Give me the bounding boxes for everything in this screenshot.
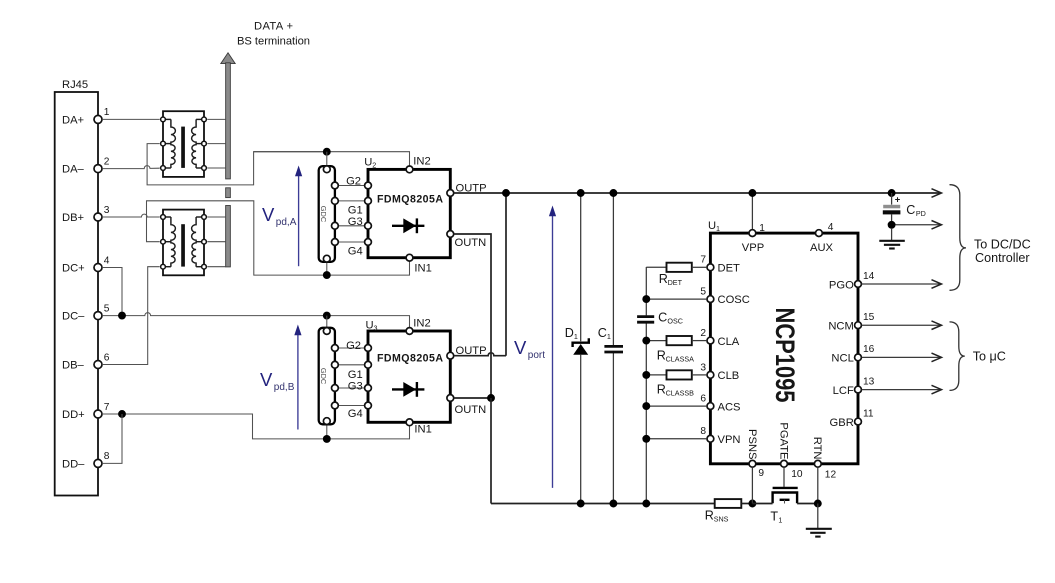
svg-text:OUTN: OUTN	[455, 237, 487, 249]
svg-text:PGATE: PGATE	[777, 422, 789, 459]
wire pin1 to TR1 top	[102, 118, 160, 120]
svg-text:IN1: IN1	[414, 263, 431, 275]
svg-text:DA+: DA+	[62, 114, 84, 126]
svg-text:To DC/DC: To DC/DC	[974, 237, 1031, 251]
U1 pin 16 NCL	[855, 354, 862, 361]
wire TR2 secondary mid to BS bus	[207, 241, 225, 243]
svg-text:V: V	[514, 337, 527, 358]
svg-text:U: U	[364, 157, 372, 169]
svg-text:9: 9	[758, 468, 764, 479]
GDC bottom terminal U3	[323, 418, 330, 425]
svg-text:11: 11	[863, 408, 874, 419]
junction ACS	[642, 402, 650, 410]
wire OUTN to bottom bus	[490, 398, 492, 504]
brace To uC	[950, 322, 965, 391]
svg-text:G4: G4	[348, 246, 363, 258]
junction CPD bottom	[888, 221, 896, 229]
svg-text:1: 1	[778, 515, 782, 524]
svg-text:G3: G3	[348, 380, 363, 392]
svg-text:FDMQ8205A: FDMQ8205A	[377, 194, 443, 206]
svg-text:PD: PD	[916, 209, 926, 218]
wire G3 U3	[335, 387, 368, 389]
wire node B top to U3 IN2	[327, 316, 410, 328]
transformer TR1 (data pair A)	[163, 111, 204, 177]
wire node A bottom to U2 IN1	[327, 262, 410, 276]
U1 pin 5 COSC	[707, 296, 714, 303]
svg-text:CLASSB: CLASSB	[666, 389, 695, 398]
U1 pin 2 CLA	[707, 337, 714, 344]
wire U3 OUTP to tie rail (hop over OUTN rail)	[454, 353, 506, 356]
svg-text:PSNS: PSNS	[746, 429, 758, 459]
U2 pin G3 left	[365, 222, 372, 229]
transformer TR2 (data pair B)	[163, 210, 204, 276]
U3 pin G4 left	[365, 402, 372, 409]
GDC top terminal U3	[323, 328, 330, 335]
BS termination bus arrow (gray)	[221, 53, 235, 64]
U1 pin 4 AUX	[816, 230, 823, 237]
svg-text:2: 2	[700, 328, 706, 339]
svg-text:RTN: RTN	[811, 437, 823, 460]
U1 pin 14 PGO	[855, 281, 862, 288]
U2 pin IN1	[406, 254, 413, 261]
svg-text:IN2: IN2	[413, 156, 430, 168]
junction COSC	[642, 295, 650, 303]
U1 pin 7 DET	[707, 264, 714, 271]
U2 pin G2 left	[365, 182, 372, 189]
svg-text:4: 4	[828, 222, 834, 233]
junction node bottom U2	[323, 271, 331, 279]
wire G1 U3	[335, 364, 368, 366]
bridge rectifier U3 FDMQ8205A body	[368, 331, 450, 422]
U3 pin IN1	[406, 419, 413, 426]
GDC bottom terminal U2	[323, 255, 330, 262]
svg-text:G1: G1	[348, 204, 363, 216]
bridge rectifier U2 FDMQ8205A body	[368, 169, 450, 257]
svg-text:G2: G2	[346, 176, 361, 188]
U1 pin 3 CLB	[707, 372, 714, 379]
wire TR1 secondary top to BS bus	[207, 118, 225, 120]
wire pin8 up to pin7 junction	[102, 414, 122, 463]
RJ45 pin 1 terminal	[94, 115, 102, 123]
U3 pin OUTP	[447, 352, 454, 359]
svg-text:GDC: GDC	[319, 206, 328, 223]
wire U2 OUTP tie down to U3 OUTP	[505, 193, 507, 356]
GDC pin 1 U3	[332, 345, 339, 352]
svg-text:CLB: CLB	[718, 370, 740, 382]
U1 pin 13 LCF	[855, 386, 862, 393]
svg-text:NCP1095: NCP1095	[770, 308, 800, 403]
wire TR2 secondary top to BS bus	[207, 216, 225, 218]
svg-text:AUX: AUX	[810, 242, 834, 254]
U3 pin G2 left	[365, 345, 372, 352]
wire RTN to ground	[817, 504, 819, 529]
wire pin6 to TR2 bottom	[102, 267, 160, 365]
svg-text:To μC: To μC	[973, 350, 1006, 364]
brace To DC/DC	[950, 185, 967, 291]
wire node A top to U2 IN2	[254, 152, 410, 166]
svg-text:OUTN: OUTN	[455, 404, 487, 416]
U1 pin 12 RTN	[814, 460, 821, 467]
junction node bottom U3	[323, 435, 331, 443]
junction pins 7-8	[118, 410, 126, 418]
U2 internal diode	[392, 225, 424, 227]
resistor RCLASSB	[646, 374, 666, 376]
svg-text:2: 2	[104, 156, 110, 167]
wire CPD to arrow	[896, 224, 941, 226]
svg-text:NCL: NCL	[831, 353, 853, 365]
junction D1 bottom	[577, 500, 585, 508]
svg-text:12: 12	[825, 469, 837, 480]
svg-text:1: 1	[104, 107, 110, 118]
svg-text:VPN: VPN	[718, 434, 741, 446]
resistor RSNS	[715, 499, 742, 508]
svg-text:8: 8	[700, 426, 706, 437]
svg-text:DD–: DD–	[62, 458, 85, 470]
junction C1 top	[609, 189, 617, 197]
GDC pin 3 U3	[332, 385, 339, 392]
svg-text:DC+: DC+	[62, 263, 85, 275]
svg-text:G4: G4	[348, 408, 363, 420]
wire TR1 center tap to node A top	[147, 144, 327, 185]
svg-text:PGO: PGO	[829, 279, 854, 291]
wire GDC bottom stub U2	[326, 259, 328, 275]
U1 pin 8 VPN	[707, 435, 714, 442]
svg-text:6: 6	[700, 394, 706, 405]
svg-text:DB–: DB–	[62, 360, 85, 372]
svg-text:U: U	[366, 319, 374, 331]
top bus OUTP rail	[454, 192, 941, 194]
zener diode D1	[573, 344, 588, 355]
wire NCL out	[862, 356, 941, 358]
wire TR2 secondary bottom to BS bus	[207, 266, 225, 268]
svg-text:10: 10	[791, 469, 803, 480]
svg-text:1: 1	[574, 332, 578, 341]
svg-text:7: 7	[104, 402, 110, 413]
svg-text:OSC: OSC	[667, 316, 683, 325]
svg-text:FDMQ8205A: FDMQ8205A	[377, 353, 443, 365]
wire G2 U2	[335, 185, 368, 187]
U2 pin IN2	[406, 166, 413, 173]
GDC gate-drive controller of U2	[319, 166, 335, 262]
U3 pin G3 left	[365, 385, 372, 392]
RJ45 pin 2 terminal	[94, 165, 102, 173]
capacitor C1	[604, 345, 623, 348]
U1 pin 9 PSNS	[749, 460, 756, 467]
capacitor COSC	[637, 315, 654, 318]
svg-text:SNS: SNS	[714, 514, 729, 523]
wire ACS pin	[646, 405, 707, 407]
junction pins 4-5	[118, 312, 126, 320]
GDC pin 3 U2	[332, 222, 339, 229]
wire C1 rail	[612, 193, 614, 345]
junction OUTP tie	[502, 189, 510, 197]
svg-text:1: 1	[607, 332, 611, 341]
junction RTN	[814, 500, 822, 508]
U3 pin IN2	[406, 328, 413, 335]
svg-text:5: 5	[700, 287, 706, 298]
svg-text:G3: G3	[348, 216, 363, 228]
wire G4 U2	[335, 241, 368, 243]
wire VPN pin	[646, 438, 707, 440]
wire COSC pin	[646, 298, 707, 300]
svg-text:13: 13	[863, 376, 875, 387]
wire D1 rail	[580, 193, 582, 341]
GDC top terminal U2	[323, 166, 330, 173]
svg-text:D: D	[565, 326, 574, 340]
wire LCF out	[862, 389, 941, 391]
svg-text:8: 8	[104, 451, 110, 462]
svg-text:BS termination: BS termination	[237, 36, 310, 48]
U1 pin 1 VPP	[749, 230, 756, 237]
svg-text:port: port	[528, 350, 545, 361]
svg-text:1: 1	[716, 224, 720, 233]
wire G3 U2	[335, 225, 368, 227]
svg-text:DET: DET	[668, 278, 683, 287]
svg-text:pd,A: pd,A	[276, 217, 297, 228]
junction left rail bottom bus	[642, 500, 650, 508]
svg-text:15: 15	[863, 312, 875, 323]
Vpd,A arrow	[298, 174, 300, 266]
junction VPP bus	[748, 189, 756, 197]
wire NCM out	[862, 324, 941, 326]
U1 pin 6 ACS	[707, 403, 714, 410]
svg-text:GBR: GBR	[830, 417, 854, 429]
svg-text:Controller: Controller	[975, 251, 1030, 265]
svg-text:COSC: COSC	[718, 294, 750, 306]
junction node top U3	[323, 312, 331, 320]
U3 internal diode	[392, 388, 424, 390]
wire pin4 down to pin5 junction	[102, 268, 122, 316]
GDC pin 2 U2	[332, 198, 339, 205]
IC U1 NCP1095 body	[710, 233, 858, 464]
junction RCLASSA	[642, 337, 650, 345]
U2 pin OUTN	[447, 231, 454, 238]
U3 pin OUTN	[447, 395, 454, 402]
GDC pin 4 U2	[332, 239, 339, 246]
svg-text:R: R	[659, 272, 668, 286]
svg-text:14: 14	[863, 271, 875, 282]
Vport arrow	[552, 215, 554, 488]
svg-text:3: 3	[374, 323, 378, 332]
svg-text:G1: G1	[348, 369, 363, 381]
svg-text:5: 5	[104, 303, 110, 314]
wire PSNS down	[751, 467, 753, 503]
svg-text:6: 6	[104, 352, 110, 363]
svg-text:U: U	[708, 220, 716, 232]
capacitor CPD (polarized)	[891, 193, 893, 205]
svg-text:2: 2	[372, 161, 376, 170]
GDC pin 1 U2	[332, 182, 339, 189]
svg-text:RJ45: RJ45	[62, 79, 88, 91]
svg-text:4: 4	[104, 255, 110, 266]
wire GDC top stub U2	[326, 152, 328, 169]
wire pin7 to node B bottom	[102, 414, 327, 439]
wire GDC top stub U3	[326, 316, 328, 331]
left rail (class/detect return)	[645, 267, 647, 315]
bottom bus left	[491, 503, 715, 505]
svg-text:CLASSA: CLASSA	[666, 354, 695, 363]
svg-text:NCM: NCM	[828, 321, 853, 333]
U1 pin 11 GBR	[855, 418, 862, 425]
wire CPD to ground	[891, 229, 893, 241]
wire TR1 secondary mid to BS bus	[207, 143, 225, 145]
GDC pin 2 U3	[332, 361, 339, 368]
wire TR2 center tap to node A bottom	[147, 201, 327, 275]
svg-text:3: 3	[700, 362, 706, 373]
wire node B bottom to U3 IN1	[327, 426, 410, 439]
junction CPD top	[888, 189, 896, 197]
transistor T1 (hot-swap MOSFET)	[773, 487, 798, 489]
U1 pin 15 NCM	[855, 322, 862, 329]
top bus arrow to DC/DC	[932, 189, 942, 198]
wire pin5/junction to node B top (hop over pin6 wire)	[102, 313, 327, 316]
svg-text:LCF: LCF	[833, 385, 854, 397]
svg-text:IN1: IN1	[414, 424, 431, 436]
wire G4 U3	[335, 405, 368, 407]
svg-text:R: R	[657, 383, 666, 397]
svg-text:16: 16	[863, 344, 875, 355]
junction C1 bottom	[609, 500, 617, 508]
U1 pin 10 PGATE	[781, 460, 788, 467]
ground (RTN)	[806, 528, 832, 530]
resistor RDET	[646, 266, 666, 268]
U2 pin OUTP	[447, 190, 454, 197]
svg-text:DATA +: DATA +	[254, 21, 293, 33]
svg-text:C: C	[906, 203, 915, 217]
svg-text:7: 7	[700, 255, 706, 266]
svg-text:DB+: DB+	[62, 212, 84, 224]
svg-text:GDC: GDC	[319, 368, 328, 385]
svg-text:V: V	[262, 204, 275, 225]
GDC gate-drive controller of U3	[319, 328, 335, 425]
svg-text:DD+: DD+	[62, 409, 85, 421]
wire TR1 secondary bottom to BS bus	[207, 167, 225, 169]
RJ45 pin 6 terminal	[94, 361, 102, 369]
wire GDC bottom stub U3	[326, 421, 328, 439]
resistor RCLASSA	[646, 340, 666, 342]
svg-text:R: R	[705, 508, 714, 522]
svg-text:R: R	[657, 348, 666, 362]
U2 pin G1 left	[365, 198, 372, 205]
wire pin2 to TR1 bottom (hop over tap)	[102, 166, 160, 169]
junction RCLASSB	[642, 371, 650, 379]
wire U3 OUTN to junction	[454, 397, 491, 399]
wire U2 OUTN down	[454, 234, 491, 398]
wire VPP to top bus	[751, 193, 753, 230]
junction node top U2	[323, 148, 331, 156]
svg-text:1: 1	[759, 223, 765, 234]
svg-text:C: C	[598, 326, 607, 340]
RJ45 pin 3 terminal	[94, 213, 102, 221]
svg-text:G2: G2	[346, 340, 361, 352]
GDC pin 4 U3	[332, 402, 339, 409]
junction D1 top	[577, 189, 585, 197]
U2 pin G4 left	[365, 239, 372, 246]
wire pin3 to TR2 top (hop over tap)	[102, 214, 160, 217]
junction RSNS-PSNS	[748, 500, 756, 508]
wire G2 U3	[335, 347, 368, 349]
RJ45 pin 7 terminal	[94, 410, 102, 418]
svg-text:3: 3	[104, 205, 110, 216]
wire G1 U2	[335, 200, 368, 202]
svg-text:DET: DET	[718, 262, 741, 274]
RJ45 pin 4 terminal	[94, 264, 102, 272]
svg-text:IN2: IN2	[413, 318, 430, 330]
svg-text:+: +	[895, 194, 901, 205]
wire PGATE down to gate	[783, 467, 785, 487]
U3 pin G1 left	[365, 361, 372, 368]
svg-text:DC–: DC–	[62, 311, 85, 323]
svg-text:pd,B: pd,B	[274, 382, 295, 393]
wire PGO out	[862, 283, 941, 285]
svg-text:DA–: DA–	[62, 164, 85, 176]
svg-text:ACS: ACS	[718, 401, 741, 413]
RJ45 pin 8 terminal	[94, 459, 102, 467]
Vpd,B arrow	[297, 333, 299, 430]
svg-text:V: V	[260, 369, 273, 390]
svg-text:VPP: VPP	[742, 242, 764, 254]
wire RTN down	[817, 467, 819, 503]
junction OUTN tie	[487, 394, 495, 402]
svg-text:CLA: CLA	[718, 336, 740, 348]
RJ45 pin 5 terminal	[94, 312, 102, 320]
svg-text:T: T	[770, 509, 778, 523]
junction VPN	[642, 435, 650, 443]
svg-text:C: C	[658, 310, 667, 324]
ground (CPD)	[879, 240, 905, 242]
